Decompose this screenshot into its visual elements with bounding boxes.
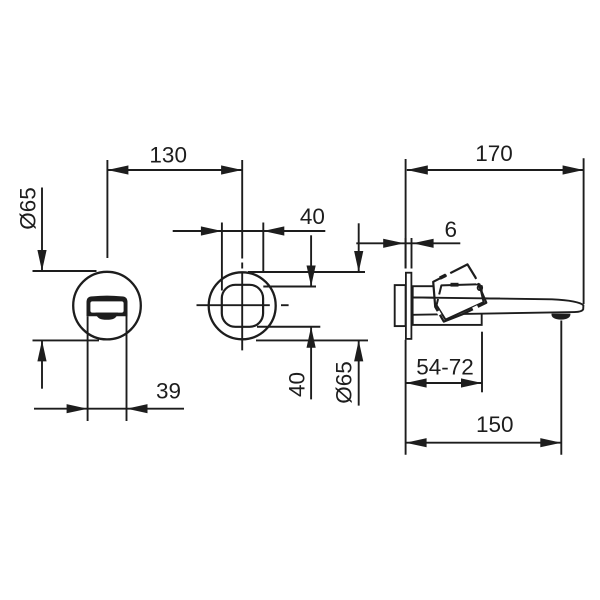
dimension 170 line bbox=[407, 169, 584, 171]
squircle spout body front view bbox=[222, 285, 263, 327]
handle top thick dash bbox=[451, 283, 459, 287]
dimension 40 width left-pointing arrow bbox=[263, 226, 284, 235]
vertical centerline dash bbox=[241, 263, 243, 269]
dimension 39 right-pointing arrow bbox=[67, 404, 88, 413]
diameter 65 left dimension line upper bbox=[41, 188, 43, 272]
dimension 54-72 right extension bbox=[481, 332, 483, 393]
handle inner face bbox=[90, 301, 123, 312]
diameter 65 middle down arrow bbox=[354, 251, 363, 272]
dimension 40 height down arrow bbox=[307, 266, 316, 287]
body escutcheon side view bbox=[413, 286, 482, 325]
in-wall body side view bbox=[395, 285, 406, 326]
handle hidden edge gap inner-left bbox=[438, 295, 439, 300]
aerator outlet bbox=[551, 314, 570, 320]
dimension 40 width left extension bbox=[221, 223, 223, 291]
diameter 65 left down arrow bbox=[37, 250, 46, 271]
diameter 65 middle dimension line lower bbox=[358, 340, 360, 405]
wall surface extension line bbox=[405, 340, 407, 455]
dimension 130 left extension line bbox=[106, 160, 108, 258]
dimension 54-72 right arrow bbox=[461, 378, 482, 387]
svg-text:6: 6 bbox=[444, 217, 457, 242]
dimension 54-72 left arrow bbox=[406, 378, 427, 387]
dimension 130 left arrow bbox=[107, 165, 128, 174]
handle lower lip bbox=[96, 313, 119, 320]
handle hidden edge gap lower-right bbox=[473, 307, 478, 309]
dimension 130 right extension line bbox=[241, 160, 243, 259]
dimension 39 line bbox=[34, 408, 184, 410]
dimension 150 right extension bbox=[560, 321, 562, 455]
handle pivot hook bbox=[478, 286, 483, 291]
dimension 150 left arrow bbox=[406, 438, 427, 447]
diameter 65 middle up arrow bbox=[354, 340, 363, 361]
dimension 130 line bbox=[107, 169, 242, 171]
dimension 6 right extension bbox=[411, 238, 413, 269]
diameter 65 middle top tangent extension bbox=[248, 271, 365, 273]
circle escutcheon handle front view bbox=[73, 272, 141, 340]
svg-text:54-72: 54-72 bbox=[416, 354, 474, 379]
spout side view bbox=[413, 297, 584, 314]
diameter 65 middle dimension line upper bbox=[358, 223, 360, 272]
handle base side view inner bbox=[437, 284, 484, 319]
dimension 40 height bottom extension bbox=[257, 326, 320, 328]
vertical centerline main bbox=[241, 272, 243, 350]
dimension 40 height line upper bbox=[310, 235, 312, 286]
dimension 6 right-pointing arrow bbox=[383, 239, 404, 248]
dimension 6 line bbox=[356, 242, 460, 244]
handle left drop line bbox=[87, 316, 89, 421]
dimension 40 height up arrow bbox=[307, 327, 316, 348]
handle hidden edge gap lower-left bbox=[438, 311, 440, 315]
svg-text:39: 39 bbox=[156, 379, 181, 404]
dimension 54-72 line bbox=[406, 382, 482, 384]
dimension 170 left arrow bbox=[407, 165, 428, 174]
handle hidden edge gap top-left bbox=[447, 273, 451, 275]
diameter 65 left dimension line lower bbox=[41, 340, 43, 388]
dimension 40 height line lower bbox=[310, 327, 312, 400]
handle edge thick dash bbox=[440, 275, 446, 278]
dimension 6 left extension bbox=[405, 238, 407, 269]
svg-text:150: 150 bbox=[476, 412, 514, 437]
diameter 65 middle bottom tangent extension bbox=[256, 339, 368, 341]
dimension 170 left extension line bbox=[405, 159, 407, 269]
dimension 170 right arrow bbox=[563, 165, 584, 174]
left circle bottom tangent extension bbox=[33, 339, 100, 341]
left circle top tangent extension bbox=[33, 270, 97, 272]
dimension 150 line bbox=[406, 442, 562, 444]
wall plate side view bbox=[406, 273, 412, 339]
svg-text:Ø65: Ø65 bbox=[16, 187, 41, 230]
circle spout escutcheon front view bbox=[209, 272, 276, 339]
dimension 40 width line bbox=[173, 230, 326, 232]
dimension 39 left-pointing arrow bbox=[127, 404, 148, 413]
horizontal centerline bbox=[197, 304, 270, 306]
dimension 40 height top extension bbox=[263, 286, 316, 288]
dimension 40 width right-pointing arrow bbox=[201, 226, 222, 235]
dimension 130 right arrow bbox=[221, 165, 242, 174]
svg-text:40: 40 bbox=[300, 204, 325, 229]
handle lever side view outer bbox=[433, 264, 486, 321]
dimension 40 width right extension bbox=[262, 223, 264, 273]
dimension 6 left-pointing arrow bbox=[413, 239, 434, 248]
spout top visible line through handle bbox=[413, 297, 500, 298]
horizontal centerline dash bbox=[281, 304, 289, 306]
dimension 170 right extension line bbox=[583, 158, 585, 304]
svg-text:170: 170 bbox=[475, 141, 513, 166]
handle hidden edge gap right bbox=[476, 279, 478, 283]
svg-text:40: 40 bbox=[285, 372, 310, 397]
dimension 150 right arrow bbox=[540, 438, 561, 447]
diameter 65 left up arrow bbox=[37, 340, 46, 361]
handle body front view bbox=[87, 296, 128, 317]
svg-text:130: 130 bbox=[149, 142, 187, 167]
svg-text:Ø65: Ø65 bbox=[332, 361, 357, 404]
handle right drop line bbox=[126, 314, 128, 421]
